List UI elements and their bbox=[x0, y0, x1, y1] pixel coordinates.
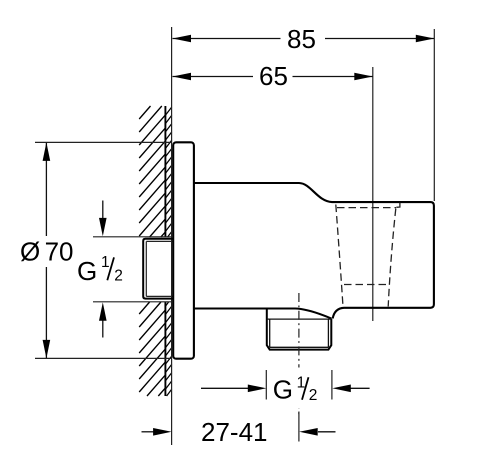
svg-text:Ø: Ø bbox=[20, 237, 40, 267]
wall hatch coarse bbox=[139, 106, 165, 396]
escutcheon flange bbox=[173, 142, 194, 358]
dimension dia70 line and arrows bbox=[45, 143, 47, 358]
svg-text:27-41: 27-41 bbox=[201, 417, 268, 447]
svg-text:1: 1 bbox=[297, 375, 306, 392]
extension line outlet center (27-41) bbox=[298, 412, 300, 442]
extension line left (wall face) bbox=[171, 27, 173, 445]
svg-text:2: 2 bbox=[309, 387, 318, 404]
svg-text:1: 1 bbox=[101, 254, 110, 271]
thread height arrows (left G1/2) bbox=[93, 237, 172, 302]
wall hatch fine bbox=[165, 107, 171, 396]
outlet nipple bbox=[267, 309, 332, 350]
body outline bbox=[194, 183, 434, 318]
svg-text:85: 85 bbox=[287, 24, 316, 54]
recess step solid bbox=[396, 203, 400, 208]
svg-text:G: G bbox=[77, 256, 97, 286]
svg-text:70: 70 bbox=[45, 237, 74, 267]
dimension 65 bbox=[173, 76, 373, 78]
extension line 65 / holder centerline bbox=[372, 67, 374, 321]
extension line right (85) bbox=[433, 29, 435, 201]
outlet centerline bbox=[298, 293, 300, 417]
svg-text:G: G bbox=[273, 374, 293, 404]
body underside curve bbox=[194, 309, 331, 319]
wall line bbox=[164, 106, 166, 396]
svg-text:2: 2 bbox=[114, 268, 123, 285]
dimension 27-41 bbox=[142, 431, 154, 433]
dimension G1/2 bottom bbox=[201, 387, 248, 389]
wall thread socket G1/2 bbox=[143, 239, 172, 299]
dimension dia70 extension lines bbox=[35, 142, 172, 358]
svg-text:65: 65 bbox=[259, 61, 288, 91]
dimension 85 bbox=[173, 38, 435, 40]
hidden recess dashed lines bbox=[336, 205, 396, 307]
label G1/2 bottom backing bbox=[272, 368, 318, 409]
